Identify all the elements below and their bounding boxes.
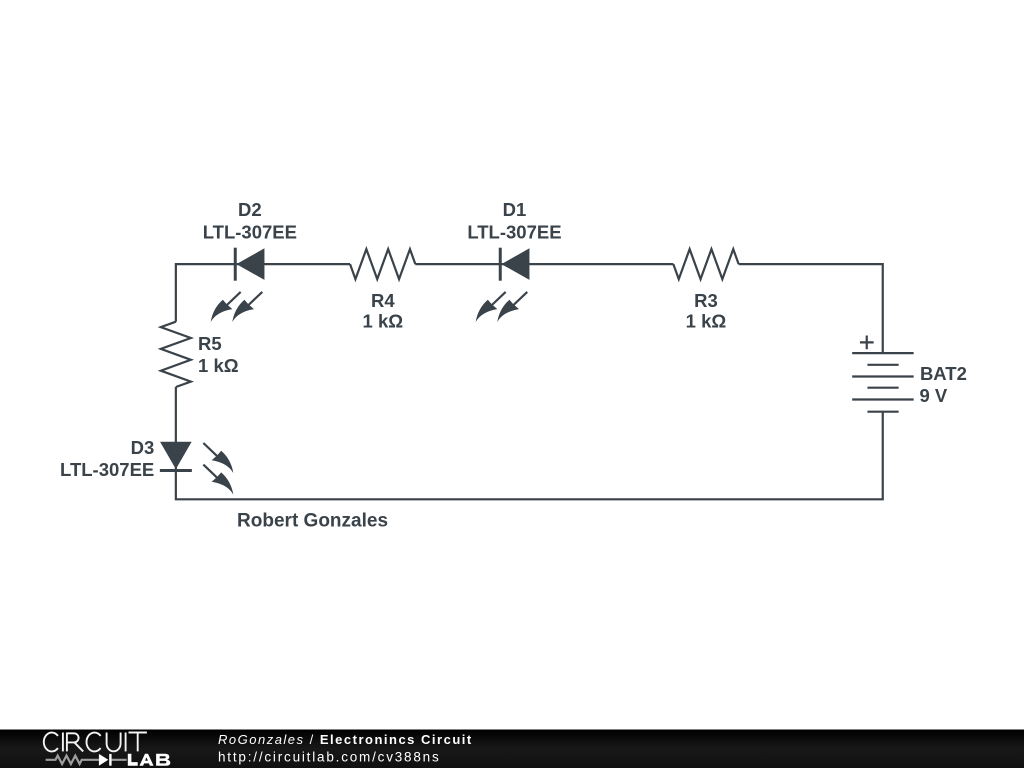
svg-text:1 kΩ: 1 kΩ xyxy=(686,311,727,332)
battery BAT2 xyxy=(852,353,914,412)
logo circuit glyph (resistor + diode) xyxy=(46,754,127,766)
svg-text:D2: D2 xyxy=(238,199,262,220)
label D3 xyxy=(60,437,154,480)
led D1 xyxy=(476,248,530,322)
footer bar xyxy=(0,730,1024,768)
resistor R3 xyxy=(673,249,738,279)
resistor R4 xyxy=(350,249,415,279)
label D2 xyxy=(203,199,297,243)
wire R3 to top-right corner and down to battery xyxy=(739,264,883,353)
D3 light arrows xyxy=(203,443,218,457)
wire between R4 and D1 xyxy=(415,263,673,265)
logo LAB letters xyxy=(128,754,171,766)
svg-text:R3: R3 xyxy=(694,290,718,311)
logo CIRCUIT wordmark xyxy=(44,733,147,752)
svg-text:R5: R5 xyxy=(198,333,222,354)
svg-text:LTL-307EE: LTL-307EE xyxy=(467,222,561,243)
D3 triangle xyxy=(160,442,192,469)
D2 triangle xyxy=(236,248,264,280)
svg-text:Robert Gonzales: Robert Gonzales xyxy=(237,511,388,532)
D1 triangle xyxy=(501,248,529,280)
wire battery to bottom-right corner, bottom horizontal, up to D3 xyxy=(176,412,883,500)
svg-text:D1: D1 xyxy=(503,199,527,220)
wire top-left horizontal segment + left vertical upper xyxy=(176,264,350,322)
label R3 xyxy=(686,290,727,332)
resistor R5 xyxy=(161,322,191,387)
wire left vertical lower (R5 to D3) xyxy=(175,387,177,471)
label D1 xyxy=(467,199,561,243)
svg-text:BAT2: BAT2 xyxy=(920,363,967,384)
label BAT2 xyxy=(919,363,966,406)
svg-text:RoGonzales / Electronincs Circ: RoGonzales / Electronincs Circuit xyxy=(218,732,473,747)
D3 cathode bar xyxy=(160,469,192,472)
led D3 xyxy=(160,442,234,495)
D2 light arrows xyxy=(226,292,241,306)
D1 light arrows xyxy=(491,292,506,306)
led D2 xyxy=(211,248,265,322)
svg-text:LTL-307EE: LTL-307EE xyxy=(60,459,154,480)
svg-text:1 kΩ: 1 kΩ xyxy=(198,355,239,376)
D2 cathode bar xyxy=(234,248,237,281)
svg-text:D3: D3 xyxy=(131,437,155,458)
svg-text:http://circuitlab.com/cv388ns: http://circuitlab.com/cv388ns xyxy=(218,750,441,765)
D1 cathode bar xyxy=(499,248,502,281)
svg-text:1 kΩ: 1 kΩ xyxy=(363,311,404,332)
label R5 xyxy=(198,333,239,376)
label R4 xyxy=(363,290,404,332)
battery plus sign xyxy=(860,336,874,350)
svg-text:9 V: 9 V xyxy=(919,385,947,406)
svg-text:LTL-307EE: LTL-307EE xyxy=(203,222,297,243)
svg-text:R4: R4 xyxy=(371,290,395,311)
